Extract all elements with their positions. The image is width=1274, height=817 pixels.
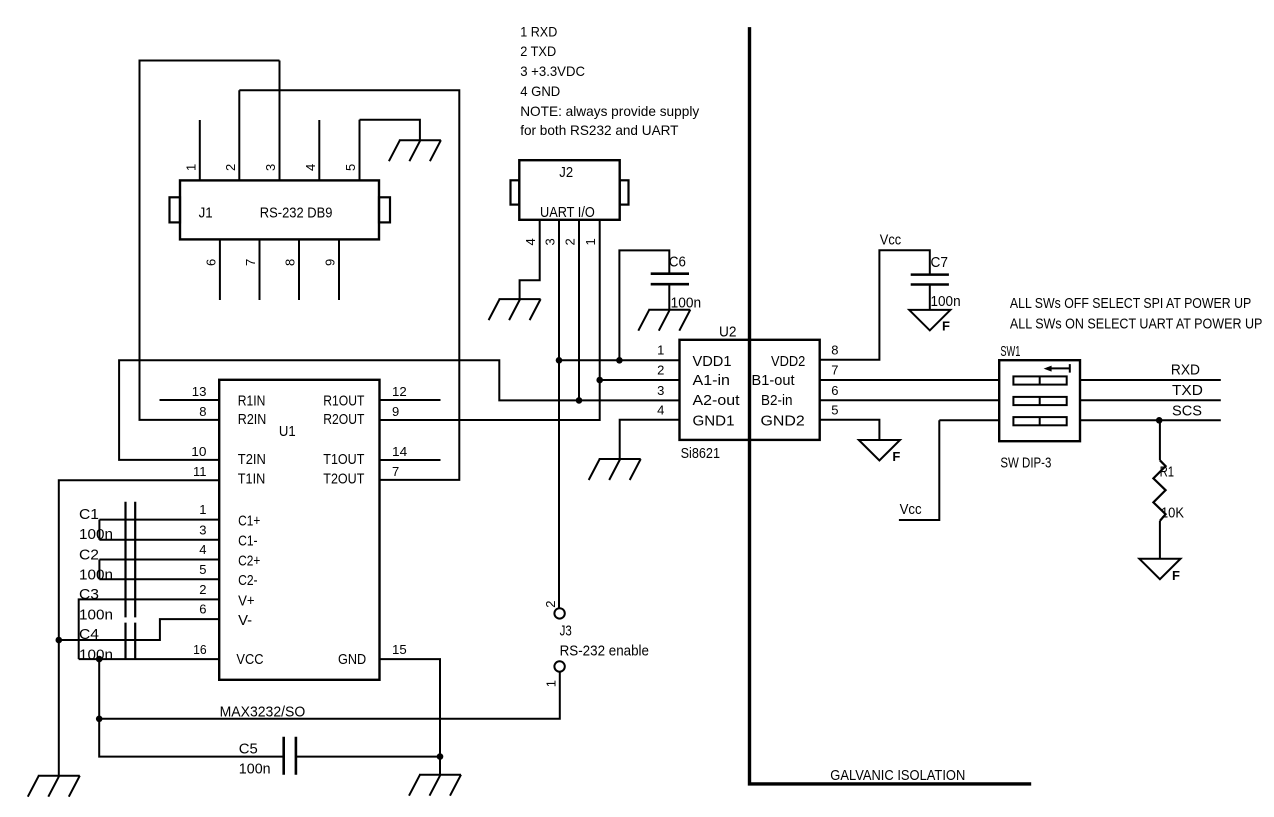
svg-text:2: 2 [543, 601, 558, 608]
svg-text:UART I/O: UART I/O [540, 205, 595, 221]
svg-text:A2-out: A2-out [693, 393, 740, 409]
svg-text:4: 4 [657, 403, 664, 418]
svg-text:SW1: SW1 [1000, 344, 1020, 360]
switch SW1 outline [999, 360, 1080, 441]
svg-text:C5: C5 [239, 742, 258, 758]
pin 6 of J1 (wire stub down) [219, 239, 221, 300]
wire R1OUT stub [380, 399, 441, 401]
svg-text:SW DIP-3: SW DIP-3 [1000, 456, 1051, 472]
svg-text:C1+: C1+ [238, 514, 260, 530]
wire J1 pin3 to U1 R2IN (top loop) [140, 61, 280, 420]
pin number 1 of J2 [583, 238, 598, 245]
svg-text:V+: V+ [238, 593, 255, 609]
ground at J2 pin4 [489, 299, 541, 320]
svg-text:Si8621: Si8621 [681, 446, 720, 462]
svg-text:100n: 100n [239, 762, 271, 778]
svg-text:GALVANIC ISOLATION: GALVANIC ISOLATION [830, 768, 965, 784]
wire R1 bottom lead [1159, 521, 1161, 559]
svg-text:4: 4 [523, 238, 538, 245]
svg-text:2: 2 [199, 582, 206, 597]
svg-text:100n: 100n [79, 648, 113, 664]
wire C7 bottom lead [929, 285, 931, 310]
svg-text:4: 4 [199, 542, 206, 557]
svg-text:3: 3 [543, 238, 558, 245]
svg-text:3: 3 [263, 164, 278, 171]
wire C5 right lead [296, 756, 440, 758]
pin 8 of J1 (wire stub down) [298, 239, 300, 300]
ground at left bus bottom [28, 776, 80, 797]
wire GND pin15 to C5 right [380, 659, 441, 757]
svg-text:VCC: VCC [236, 652, 263, 668]
svg-text:T2OUT: T2OUT [323, 471, 364, 487]
svg-text:F: F [942, 319, 950, 334]
svg-text:4 GND: 4 GND [520, 83, 560, 99]
svg-text:1: 1 [543, 680, 558, 687]
pin number 7 of J1 [243, 259, 258, 266]
wire C2+ row [99, 559, 219, 561]
junction A1-in corner [596, 377, 603, 384]
wire C2- row [99, 578, 219, 580]
pin number 3 of J1 [263, 164, 278, 171]
svg-text:10: 10 [191, 444, 206, 459]
pin number 4 of J2 [523, 238, 538, 245]
switch SW1 element 3 [1013, 417, 1066, 425]
svg-text:5: 5 [343, 164, 358, 171]
svg-text:100n: 100n [931, 294, 961, 310]
svg-text:5: 5 [199, 562, 206, 577]
pin number 4 of J1 [303, 164, 318, 171]
capacitor C6 plates [651, 274, 689, 285]
svg-text:GND1: GND1 [693, 413, 735, 429]
wire VDD2 to Vcc corner [820, 250, 930, 359]
connector J1 outline [180, 180, 379, 239]
svg-text:J2: J2 [559, 165, 573, 181]
svg-text:RXD: RXD [1171, 363, 1200, 379]
svg-text:T1OUT: T1OUT [323, 452, 364, 468]
svg-text:16: 16 [193, 642, 207, 657]
svg-text:VDD1: VDD1 [693, 354, 732, 370]
galvanic isolation barrier line [750, 27, 1032, 784]
svg-text:R1IN: R1IN [238, 394, 266, 410]
pin number 8 of J1 [283, 259, 298, 266]
svg-text:100n: 100n [79, 568, 113, 584]
svg-text:B2-in: B2-in [761, 393, 793, 409]
svg-text:J3: J3 [560, 624, 572, 640]
wire C2 left connector [98, 560, 100, 580]
wire C1- row [99, 539, 219, 541]
svg-text:8: 8 [283, 259, 298, 266]
svg-text:C4: C4 [79, 627, 99, 643]
ground at U1 GND [409, 775, 461, 796]
pin number 1 of J1 [183, 164, 198, 171]
wire C1 left connector [98, 520, 100, 540]
wire R1IN stub [160, 399, 220, 401]
svg-text:V-: V- [238, 613, 252, 629]
svg-text:U1: U1 [279, 424, 296, 440]
svg-text:TXD: TXD [1172, 383, 1203, 399]
pin 2 of J1 (wire up) [238, 90, 240, 180]
wire T2IN to A2-out net (left loop) [119, 360, 679, 460]
switch SW1 element 2 [1013, 397, 1066, 405]
svg-text:C2-: C2- [238, 573, 258, 589]
junction RS-232 enable net [96, 716, 103, 723]
switch SW1 element 1 [1013, 376, 1066, 384]
svg-text:Vcc: Vcc [880, 232, 901, 248]
svg-text:3 +3.3VDC: 3 +3.3VDC [520, 63, 585, 79]
svg-text:R1OUT: R1OUT [323, 394, 364, 410]
resistor R1 zigzag [1153, 460, 1165, 521]
svg-text:7: 7 [831, 363, 838, 378]
svg-text:9: 9 [392, 404, 399, 419]
junction C5 right [437, 753, 444, 760]
svg-text:C2+: C2+ [238, 553, 260, 569]
svg-text:5: 5 [831, 403, 838, 418]
ground F at R1 [1139, 559, 1180, 580]
pin number 2 of J2 [563, 238, 578, 245]
op-amp U1 MAX3232 outline [219, 380, 379, 680]
svg-text:8: 8 [831, 343, 838, 358]
svg-text:T2IN: T2IN [238, 452, 266, 468]
svg-text:RS-232 enable: RS-232 enable [560, 644, 649, 660]
wire C1+ row [99, 519, 219, 521]
wire C6 bottom lead [668, 285, 670, 310]
svg-text:R1: R1 [1160, 465, 1175, 481]
junction C4/ground bus [56, 637, 63, 644]
svg-text:ALL SWs ON SELECT UART AT POWE: ALL SWs ON SELECT UART AT POWER UP [1010, 317, 1263, 333]
svg-text:6: 6 [831, 383, 838, 398]
capacitor bank right plate [134, 502, 136, 659]
capacitor C5 plates [284, 737, 296, 775]
wire GND1 to ground [620, 420, 680, 459]
connector J2 left tab [511, 180, 520, 204]
wire R1 top lead [1159, 420, 1161, 460]
svg-text:12: 12 [392, 384, 407, 399]
junction VDD1 at C6 branch [616, 357, 623, 364]
svg-text:RS-232 DB9: RS-232 DB9 [260, 205, 333, 221]
svg-text:2: 2 [657, 363, 664, 378]
wire Vcc to SCS net [899, 420, 939, 520]
svg-text:11: 11 [193, 464, 207, 479]
pin 3 of J1 (wire up) [279, 61, 281, 181]
svg-text:U2: U2 [719, 325, 737, 341]
svg-text:1: 1 [657, 343, 664, 358]
svg-text:B1-out: B1-out [752, 373, 795, 389]
wire VCC row [79, 658, 220, 660]
ground at C6 [638, 310, 690, 331]
ground F at C7 [909, 310, 950, 331]
svg-text:VDD2: VDD2 [771, 354, 805, 370]
svg-text:4: 4 [303, 164, 318, 171]
wire ground lead below C5 junction [439, 757, 441, 775]
svg-text:9: 9 [323, 259, 338, 266]
wire RXD [1079, 379, 1221, 381]
wire TXD [1079, 399, 1221, 401]
pin number 9 of J1 [323, 259, 338, 266]
pin 2 of J2 wire down to A2-out net [578, 220, 580, 400]
svg-text:15: 15 [392, 642, 407, 657]
svg-text:C1: C1 [79, 507, 99, 523]
wire J1 pin2 to U1 T2OUT (outer loop) [239, 90, 459, 480]
svg-text:GND: GND [338, 652, 366, 668]
svg-text:3: 3 [657, 383, 664, 398]
svg-text:1 RXD: 1 RXD [520, 23, 557, 39]
svg-text:3: 3 [199, 522, 206, 537]
pin 1 of J1 (wire stub up) [199, 120, 201, 180]
pin 1 of J2 wire down to A1-in net [599, 220, 601, 380]
pin number 1 of J3 [543, 680, 558, 687]
pin 7 of J1 (wire stub down) [259, 239, 261, 300]
svg-text:1: 1 [199, 502, 206, 517]
pin 4 of J2 wire to ground [520, 220, 540, 299]
connector J3 pin1 circle [554, 661, 564, 671]
svg-text:2 TXD: 2 TXD [520, 43, 556, 59]
svg-text:A1-in: A1-in [693, 373, 731, 389]
wire C5 left lead [99, 719, 284, 757]
wire V- row with step to C4 top [59, 619, 219, 640]
wire VDD1 net (3.3V) [559, 359, 680, 361]
wire T1IN to ground bus [59, 480, 219, 775]
junction on A2-out net at J2 pin2 [576, 397, 583, 404]
svg-text:13: 13 [192, 384, 207, 399]
svg-text:GND2: GND2 [761, 413, 805, 429]
wire R2OUT to A1-in [380, 380, 680, 420]
pin number 5 of J1 [343, 164, 358, 171]
svg-text:T1IN: T1IN [238, 471, 265, 487]
junction SCS at R1 [1156, 417, 1163, 424]
connector J3 pin2 circle [554, 608, 564, 618]
svg-text:7: 7 [392, 464, 399, 479]
pin number 6 of J1 [203, 259, 218, 266]
svg-text:F: F [892, 449, 900, 464]
svg-text:Vcc: Vcc [900, 502, 922, 518]
pin 9 of J1 (wire stub down) [338, 239, 340, 300]
pin number 2 of J3 [543, 601, 558, 608]
svg-text:6: 6 [199, 602, 206, 617]
wire RS-232 enable net to J3 pin1 [99, 672, 560, 719]
switch SW1 arrow [1047, 364, 1070, 373]
svg-text:100n: 100n [79, 527, 113, 543]
svg-text:for both RS232 and UART: for both RS232 and UART [520, 122, 679, 138]
svg-text:C1-: C1- [238, 534, 258, 550]
op-amp U2 Si8621 outline [680, 340, 820, 440]
wire GND2 to ground [820, 420, 880, 440]
wire SCS [1079, 419, 1221, 421]
pin number 3 of J2 [543, 238, 558, 245]
svg-text:C7: C7 [931, 255, 949, 271]
pin number 2 of J1 [223, 164, 238, 171]
svg-text:6: 6 [203, 259, 218, 266]
pin 3 of J2 wire down to J3 pin 2 (3.3V net) [558, 220, 560, 608]
wire VCC junction down to RS-232 enable net [98, 659, 100, 719]
wire SCS left segment [939, 419, 1000, 421]
svg-text:2: 2 [223, 164, 238, 171]
pin 5 of J1 (wire up) [359, 120, 361, 181]
svg-text:C3: C3 [79, 587, 99, 603]
capacitor C7 plates [911, 275, 949, 285]
connector J1 left tab [170, 197, 181, 222]
svg-text:R2IN: R2IN [238, 412, 266, 428]
svg-text:F: F [1172, 568, 1180, 583]
svg-text:10K: 10K [1161, 505, 1184, 521]
svg-text:14: 14 [392, 444, 407, 459]
svg-text:100n: 100n [79, 608, 113, 624]
svg-text:R2OUT: R2OUT [323, 412, 364, 428]
pin 4 of J1 (wire stub up) [318, 120, 320, 180]
svg-text:NOTE: always provide supply: NOTE: always provide supply [520, 103, 699, 119]
connector J2 outline [519, 160, 619, 220]
svg-text:1: 1 [183, 164, 198, 171]
capacitor bank left plate [124, 502, 126, 659]
wire C6 top lead to VDD1 net [619, 250, 669, 360]
connector J2 right tab [620, 180, 629, 204]
wire J1 pin5 to ground [360, 120, 420, 141]
svg-text:J1: J1 [199, 205, 213, 221]
svg-text:7: 7 [243, 259, 258, 266]
svg-text:C6: C6 [669, 255, 686, 271]
svg-text:8: 8 [199, 404, 206, 419]
junction VCC row [96, 656, 103, 663]
connector J1 right tab [379, 197, 390, 222]
wire B2-in to SW1 (TXD) [820, 399, 1000, 401]
wire T1OUT stub [380, 459, 441, 461]
wire V+ row and riser to VCC row [79, 599, 220, 659]
svg-text:ALL SWs OFF SELECT SPI AT POWE: ALL SWs OFF SELECT SPI AT POWER UP [1010, 296, 1251, 312]
ground F at GND2 [859, 440, 900, 461]
svg-text:SCS: SCS [1172, 404, 1202, 420]
ground at J1 pin5 [389, 140, 441, 161]
svg-text:2: 2 [563, 238, 578, 245]
svg-text:C2: C2 [79, 548, 99, 564]
wire B1-out to SW1 (RXD) [820, 379, 1000, 381]
svg-text:1: 1 [583, 238, 598, 245]
junction VDD1 at J2 pin3 [556, 357, 563, 364]
ground at GND1 [589, 459, 641, 480]
